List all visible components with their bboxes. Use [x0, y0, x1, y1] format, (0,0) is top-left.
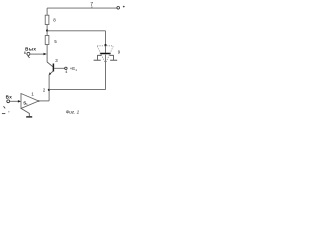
- tick under label 7: [91, 6, 93, 8]
- svg-text:4: 4: [65, 70, 67, 74]
- wire net 7 top horizontal: [47, 7, 117, 9]
- sensor 9 dashed vessel top: [97, 45, 113, 47]
- small bar under input terminal: [2, 113, 5, 115]
- svg-text:Вых: Вых: [25, 46, 36, 51]
- tick under terminal 6: [28, 56, 30, 58]
- wire emitter down to node 2: [48, 75, 50, 101]
- wire sensor vertical down: [105, 31, 107, 53]
- op-amp U1 triangle: [21, 94, 39, 109]
- transistor Q3 collector lead: [47, 62, 53, 67]
- svg-text:Фиг. 1: Фиг. 1: [66, 109, 80, 114]
- arrowhead output wire: [44, 53, 47, 56]
- wire between resistors: [46, 25, 48, 36]
- sensor 9 electrode plate bar: [100, 53, 111, 55]
- svg-text:5: 5: [54, 39, 57, 44]
- node junction dot sensor top: [104, 44, 106, 46]
- faint speck near input: [8, 111, 10, 113]
- node junction dot between resistors: [46, 29, 48, 31]
- wire node 2 to sensor bottom: [49, 89, 106, 91]
- transistor Q3 emitter lead: [50, 71, 54, 74]
- ground bar: [26, 116, 32, 118]
- terminal 4 circle: [65, 67, 67, 69]
- wire output terminal to collector node: [30, 53, 44, 55]
- transistor Q3 base lead to terminal 4: [54, 67, 65, 69]
- svg-text:1: 1: [31, 91, 34, 96]
- emitter arrowhead: [49, 72, 51, 75]
- svg-text:8: 8: [53, 18, 56, 23]
- sensor 9 dashed vessel left side: [97, 46, 105, 62]
- svg-text:3: 3: [55, 58, 58, 63]
- sensor 9 right bracket base: [110, 59, 117, 61]
- sensor 9 right bracket: [110, 55, 114, 60]
- wire input to op-amp: [10, 100, 19, 102]
- node 2 junction dot: [48, 89, 50, 91]
- label +E2: [123, 6, 125, 8]
- terminal +E2 circle: [117, 7, 120, 10]
- wire sensor stem down: [105, 55, 107, 90]
- transistor Q3 base bar: [52, 64, 54, 72]
- wire op-amp output: [39, 100, 50, 102]
- svg-text:2: 2: [43, 88, 46, 93]
- op-amp output apex dot: [38, 100, 40, 102]
- sensor 9 left bracket base: [94, 59, 101, 61]
- resistor 5: [45, 36, 49, 45]
- wire resistor 5 to transistor: [46, 45, 48, 63]
- terminal 6 circle: [27, 52, 30, 55]
- sensor 9 dashed vessel right side: [106, 46, 113, 62]
- ground lead from op-amp: [21, 108, 29, 116]
- wire junction to sensor horizontal: [47, 30, 105, 32]
- svg-text:Вх: Вх: [6, 95, 13, 100]
- wire top-left corner down: [46, 8, 48, 15]
- sensor 9 left bracket: [98, 55, 102, 60]
- tick under input terminal: [4, 106, 6, 108]
- terminal input circle: [7, 100, 10, 103]
- arrowhead input wire: [18, 100, 21, 103]
- resistor 8: [45, 15, 49, 24]
- svg-text:9: 9: [118, 50, 121, 55]
- svg-text:+E1: +E1: [70, 66, 77, 72]
